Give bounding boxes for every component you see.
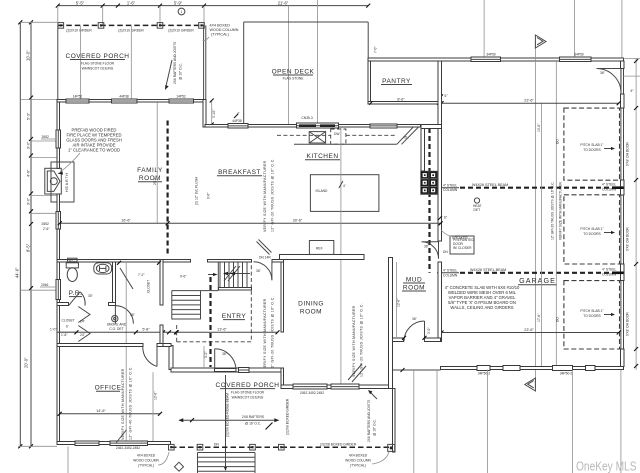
west wall below fireplace [57,194,60,211]
svg-text:9'-6": 9'-6" [180,275,187,279]
toilet bowl [67,268,77,282]
deck dim tick 4' [234,114,238,118]
window 34P50 [471,57,501,61]
svg-text:@ 16' O.C.: @ 16' O.C. [245,422,261,426]
west wall [57,229,60,279]
tick [366,4,370,8]
island [310,175,379,212]
svg-text:3'-0": 3'-0" [427,327,431,334]
svg-text:34P50-2: 34P50-2 [560,372,573,376]
stoop south line [393,369,441,371]
front door arc [215,349,236,370]
extension line garage window [483,0,485,58]
porch interior grid line [79,26,81,100]
svg-text:GARAGE: GARAGE [519,276,556,285]
deck left edge [243,22,245,125]
dim line 23'-6" lower [442,332,619,334]
wall solid piers [620,61,624,69]
svg-text:12'-6": 12'-6" [154,391,158,400]
rafter direction arrow [181,419,276,421]
porch column [197,444,203,450]
svg-text:BREAKFAST: BREAKFAST [218,169,261,176]
svg-text:OPEN DECK: OPEN DECK [272,69,315,76]
svg-text:(2)2X8 BOXED RIDGE BEAM: (2)2X8 BOXED RIDGE BEAM [226,393,230,437]
svg-text:1'-6": 1'-6" [127,0,136,5]
sidelight window [239,367,249,372]
garage north wall [368,58,623,61]
entry diagonal wall [259,240,272,253]
line [620,370,622,473]
stair lower flight treads [172,296,201,320]
hall door arc to entry [115,306,133,324]
svg-text:4X4 BOXED: 4X4 BOXED [210,24,231,28]
svg-text:2'-6": 2'-6" [43,227,50,231]
svg-text:W/ CLOSER: W/ CLOSER [453,246,472,250]
tick [158,4,162,8]
svg-text:44'-6": 44'-6" [15,267,20,278]
svg-text:WAINSCOT CEILING: WAINSCOT CEILING [82,67,114,71]
svg-text:24": 24" [80,320,86,324]
west wall upper [57,100,60,130]
LVL flush beam dashed [167,121,169,257]
beam end solid [612,271,624,274]
window 34P50 b [560,57,591,61]
rafter arrow SE [370,392,377,399]
hall east wall [160,259,163,305]
east wall thin lines [620,61,622,366]
svg-text:36": 36" [424,245,430,249]
svg-text:5'-3": 5'-3" [26,112,30,120]
svg-text:36": 36" [600,71,606,75]
svg-text:WALLS, CEILING AND GIRDERS: WALLS, CEILING AND GIRDERS [450,305,513,310]
line [572,370,574,473]
svg-text:34P50-2: 34P50-2 [478,372,491,376]
svg-text:FAMILY: FAMILY [137,167,163,174]
steps [198,453,256,473]
smoke detector [112,315,118,321]
svg-text:ISLAND: ISLAND [316,189,329,193]
heat detector [474,198,479,203]
north wall [57,100,205,103]
svg-text:HEARTH: HEARTH [65,172,69,192]
svg-text:8'-6": 8'-6" [397,98,405,102]
svg-text:36": 36" [256,269,262,273]
closet mid line [57,331,78,333]
bifold door lower [78,326,90,342]
svg-text:TO DOORS: TO DOORS [583,232,601,236]
steel column cluster [421,171,429,194]
svg-text:(TYPICAL): (TYPICAL) [211,33,229,37]
svg-text:DET: DET [474,208,481,212]
svg-text:21'-6": 21'-6" [278,0,289,5]
window [503,366,520,371]
svg-text:12'-6": 12'-6" [397,298,401,307]
svg-text:DN: DN [214,443,219,447]
service door top-right: arc [597,69,622,94]
PR east wall [113,262,116,306]
PR door arc [80,292,85,306]
svg-text:COVERED PORCH: COVERED PORCH [66,53,130,60]
window [293,384,327,389]
svg-text:4" STEEL: 4" STEEL [443,184,458,188]
svg-text:W4X26 STEEL BEAM: W4X26 STEEL BEAM [472,183,508,187]
svg-text:SPEAKER: SPEAKER [452,236,468,240]
dim line 23'-6" upper [442,102,619,104]
svg-text:VERIFY SIZE WITH MANUFACTURER: VERIFY SIZE WITH MANUFACTURER [559,182,563,240]
entry south wall [171,368,281,372]
extension line [203,6,205,25]
svg-text:17'-6": 17'-6" [537,313,541,322]
window [586,366,596,371]
svg-text:2X8 RAFTERS AND JOISTS: 2X8 RAFTERS AND JOISTS [367,399,371,442]
interior dim line family [156,102,158,223]
rafter arrow [166,60,172,86]
svg-text:20'-0": 20'-0" [24,357,29,368]
svg-text:2652: 2652 [42,222,50,226]
svg-text:CN35-3: CN35-3 [301,116,313,120]
svg-text:P.R.: P.R. [69,290,83,297]
tick [202,4,206,8]
upper flight treads [220,262,247,288]
front door opening [215,369,236,372]
window [553,366,573,371]
window 2046 [56,279,60,299]
sink vanity [94,263,112,274]
svg-text:PANTRY: PANTRY [382,78,411,85]
svg-text:3'-0": 3'-0" [26,197,30,205]
svg-text:SMOKE AND: SMOKE AND [107,323,127,327]
svg-text:VERIFY SIZE WITH MANUFACTURER: VERIFY SIZE WITH MANUFACTURER [352,305,356,377]
svg-text:C.O. DET: C.O. DET [109,327,123,331]
office top wall [57,344,143,347]
firebox circle [50,178,57,185]
extension line [57,6,59,25]
entry-kitchen door arc [254,262,272,280]
line [487,370,489,473]
svg-text:1'-0": 1'-0" [50,328,57,332]
fireplace outer box [45,168,62,194]
porch column [58,23,64,29]
entry dashed ceiling box [177,262,252,342]
garage grid line 2 [555,61,557,366]
extension line garage right [621,0,623,58]
DN closet in garage [450,236,474,254]
jog dim line [211,101,213,125]
leader [60,153,80,172]
coat closet rod diagonal [120,268,133,289]
svg-text:WAINSCOT CEILING: WAINSCOT CEILING [232,396,264,400]
stair left stringer [171,291,173,320]
window 14P52 [66,99,89,103]
svg-text:5'-9": 5'-9" [174,0,183,5]
svg-text:(2)2X8 BOXED GIRDER: (2)2X8 BOXED GIRDER [320,443,357,447]
svg-text:14P52: 14P52 [73,94,83,98]
dim ticks mud [402,336,406,340]
svg-text:COLUMN: COLUMN [602,273,617,277]
svg-text:TO DOORS: TO DOORS [583,148,601,152]
svg-text:DINING: DINING [298,301,324,308]
svg-text:2452-3452-2452: 2452-3452-2452 [300,391,324,395]
svg-text:ENTRY: ENTRY [222,313,247,320]
refrigerator [309,241,333,255]
svg-text:12" GPI-20 TRUSS JOISTS @ 16": 12" GPI-20 TRUSS JOISTS @ 16" O.C. [271,296,275,370]
tick [101,4,105,8]
svg-text:14P52: 14P52 [176,94,186,98]
svg-text:16'-6": 16'-6" [121,219,131,223]
steel beam upper [437,187,459,189]
svg-text:25'-8": 25'-8" [153,176,157,185]
svg-text:3'-0": 3'-0" [26,141,30,149]
svg-text:8'-5": 8'-5" [25,243,30,252]
extension lines left [20,21,58,23]
landing right wall [217,262,219,291]
stair south wall [218,288,251,290]
svg-text:4X4 BOXED: 4X4 BOXED [137,454,156,458]
svg-text:(2) 12" LVL FLUSH: (2) 12" LVL FLUSH [195,176,199,205]
svg-text:REF: REF [316,247,323,251]
svg-text:7'-0": 7'-0" [374,46,378,53]
svg-text:34P50: 34P50 [486,53,496,57]
pitch slab box 3 [564,281,620,349]
tick [56,4,60,8]
svg-text:(2)2X10 GIRDER: (2)2X10 GIRDER [168,29,194,33]
extension line [102,6,104,26]
wall piece office side [163,344,171,347]
svg-text:WOOD COLUMN: WOOD COLUMN [345,459,371,463]
stair break X [224,266,236,281]
svg-text:DO: DO [556,317,560,322]
svg-text:W.C.: W.C. [69,258,76,262]
svg-text:36": 36" [222,352,228,356]
svg-text:CLOSET: CLOSET [62,319,75,323]
porch west wall [169,346,173,370]
svg-text:W4X26 STEEL BEAM: W4X26 STEEL BEAM [470,268,506,272]
right exterior dim line [635,59,637,371]
svg-text:12" GPI-20 TRUSS JOISTS @ 16": 12" GPI-20 TRUSS JOISTS @ 16" O.C. [551,182,555,240]
porch column [199,23,205,29]
dim line top [58,5,368,7]
svg-text:30'-6": 30'-6" [293,219,303,223]
upper cabinets dashed [277,134,331,136]
svg-text:VERIFY SIZE WITH MANUFACTURER: VERIFY SIZE WITH MANUFACTURER [263,298,267,370]
dining bottom wall [281,385,393,389]
svg-text:DN 14R: DN 14R [259,256,271,260]
mudroom-garage door arc [422,242,439,259]
svg-text:(TYPICAL): (TYPICAL) [350,464,366,468]
corridor wall [421,129,425,171]
pitch slab box 2 [564,195,620,264]
extension line garage window 2 [573,0,575,58]
svg-text:2652: 2652 [42,135,50,139]
stair right stringer [200,291,202,320]
svg-text:2X8 RAFTERS: 2X8 RAFTERS [242,415,265,419]
kitchen sink [309,132,325,143]
svg-text:24": 24" [80,333,86,337]
office dim 14'-6" [60,413,160,415]
svg-text:3'-10": 3'-10" [212,109,216,118]
svg-text:6': 6' [66,325,69,329]
mud door leaf [424,321,426,341]
beam end solid [612,186,624,189]
svg-text:PITCH SLAB 1": PITCH SLAB 1" [580,143,604,147]
grade line below office [67,447,69,473]
west wall lower [57,300,60,442]
svg-text:9'X8' OH DOOR: 9'X8' OH DOOR [626,142,630,166]
mud door arc [404,321,424,341]
garage bottom wall [441,366,624,369]
porch east wall [393,389,396,453]
svg-text:45': 45' [403,136,408,140]
svg-text:(TYPICAL): (TYPICAL) [138,464,154,468]
svg-text:DW: DW [334,132,340,136]
svg-text:(2)2X8 BOXED GIRDER: (2)2X8 BOXED GIRDER [286,398,290,435]
svg-text:7'-2": 7'-2" [138,273,145,277]
dim row y332 [57,331,278,333]
porch girder dashed [58,24,204,26]
svg-text:13'-6": 13'-6" [217,328,227,332]
mud/dining east wall [389,258,393,389]
stair up arrow [226,273,250,275]
firebox [47,171,60,191]
svg-text:1: 1 [181,10,183,14]
inner dim line [30,22,32,446]
svg-text:4X4 BOXED: 4X4 BOXED [349,454,368,458]
corner jog wall [203,100,206,128]
section flag top [535,35,546,48]
svg-text:1" CLEARANCE TO WOOD: 1" CLEARANCE TO WOOD [68,148,120,153]
mud bottom wall [392,338,403,342]
leader to column [203,37,210,41]
window [75,441,99,446]
porch right edge double [203,25,205,101]
porch left edge [57,25,59,99]
callout circle 1 [178,8,185,15]
svg-text:4': 4' [343,184,346,188]
porch column [250,444,256,450]
front door leaf [214,349,216,369]
svg-text:14'-6": 14'-6" [96,409,106,413]
west wall [57,148,60,168]
porch column sw [169,444,175,450]
entry flush beam dashed [209,277,211,367]
line below mud porch [413,370,415,473]
speaker note [441,230,455,236]
svg-text:(2)2X10 GIRDER: (2)2X10 GIRDER [66,29,92,33]
svg-text:12" GPI-20 TRUSS JOISTS @ 16": 12" GPI-20 TRUSS JOISTS @ 16" O.C. [271,158,275,232]
svg-text:DO: DO [556,139,560,144]
svg-text:4'-6": 4'-6" [26,169,30,177]
svg-text:30": 30" [88,294,94,298]
roof break diagonals [348,364,362,380]
svg-text:4': 4' [237,112,240,116]
window 2652 [56,130,60,148]
svg-text:2046: 2046 [41,283,49,287]
svg-text:4" STEEL: 4" STEEL [602,183,617,187]
porch column se [388,444,395,451]
extension line [159,6,161,26]
svg-text:WOOD COLUMN: WOOD COLUMN [210,28,239,32]
line break symbol [339,181,343,188]
grid line through deck 2 [317,0,319,125]
fireplace hearth box [51,162,74,202]
PR south wall [57,303,69,306]
steel beam lower [437,272,459,274]
svg-text:4" STEEL: 4" STEEL [443,269,458,273]
svg-text:VERIFY SIZE WITH MANUFACTURER: VERIFY SIZE WITH MANUFACTURER [121,368,125,440]
svg-text:9'X8' OH DOOR: 9'X8' OH DOOR [626,312,630,336]
corner diagonal cabinet [397,127,414,145]
dishwasher dashed [331,129,346,144]
svg-text:2X8 RAFTERS AND JOISTS: 2X8 RAFTERS AND JOISTS [173,41,177,84]
svg-text:23'-6": 23'-6" [524,99,534,103]
porch interior grid line 2 [130,26,132,100]
svg-text:MUD: MUD [406,277,422,284]
corner cap wall [421,125,442,129]
svg-text:44P38: 44P38 [119,94,129,98]
pantry left wall [368,61,370,102]
svg-text:OneKey MLS: OneKey MLS [576,459,637,473]
svg-text:36": 36" [412,317,418,321]
svg-text:5'-8": 5'-8" [142,328,150,332]
svg-text:ROOM: ROOM [139,175,161,182]
svg-text:12" GPI-40 TRUSS JOISTS @ 16": 12" GPI-40 TRUSS JOISTS @ 16" O.C. [129,366,133,440]
window 44P38 [112,99,137,103]
column base diamond [174,462,183,471]
landing edge [172,290,219,292]
dining west wall [281,262,284,332]
svg-text:FLAG STONE: FLAG STONE [283,77,305,81]
svg-text:CLOSET: CLOSET [147,280,151,293]
section line [534,41,536,387]
wc label box [68,258,78,262]
office grid line [125,262,127,442]
svg-text:1'-8": 1'-8" [61,333,68,337]
deck right edge [367,22,369,58]
svg-text:@ 16" O.C.: @ 16" O.C. [373,419,377,436]
kitchen window CN35-3 [297,123,339,128]
window [331,384,359,389]
office corner diagonal [116,430,126,443]
svg-text:23'-6": 23'-6" [524,328,534,332]
window [110,441,148,446]
svg-text:PITCH SLAB 1": PITCH SLAB 1" [580,227,604,231]
office bottom wall [57,442,170,445]
counter edge [294,143,397,145]
porch column [98,23,104,29]
svg-text:9'X8' OH DOOR: 9'X8' OH DOOR [626,227,630,251]
svg-text:COLUMN: COLUMN [443,274,458,278]
svg-text:COLUMN: COLUMN [443,188,458,192]
svg-text:KITCHEN: KITCHEN [306,153,338,160]
svg-text:@ 16" O.C.: @ 16" O.C. [179,63,183,80]
PR north wall (hall row) [57,259,191,262]
svg-text:ROOM: ROOM [403,285,425,292]
porch column [279,444,285,450]
svg-text:36": 36" [130,313,136,317]
office door arc [143,347,157,367]
svg-text:10'-0": 10'-0" [25,50,30,61]
bottom girder dashed [171,446,390,448]
line below mud porch 2 [436,370,438,473]
svg-text:44P38: 44P38 [232,119,242,123]
garage grid line 1 [541,103,543,366]
toilet tank [66,263,78,268]
ridge line [225,375,227,468]
north wall breakfast-kitchen [205,125,421,128]
counter half wall south [279,254,363,259]
svg-text:ROOM: ROOM [300,309,322,316]
svg-text:2452-3452-2452: 2452-3452-2452 [116,446,140,450]
